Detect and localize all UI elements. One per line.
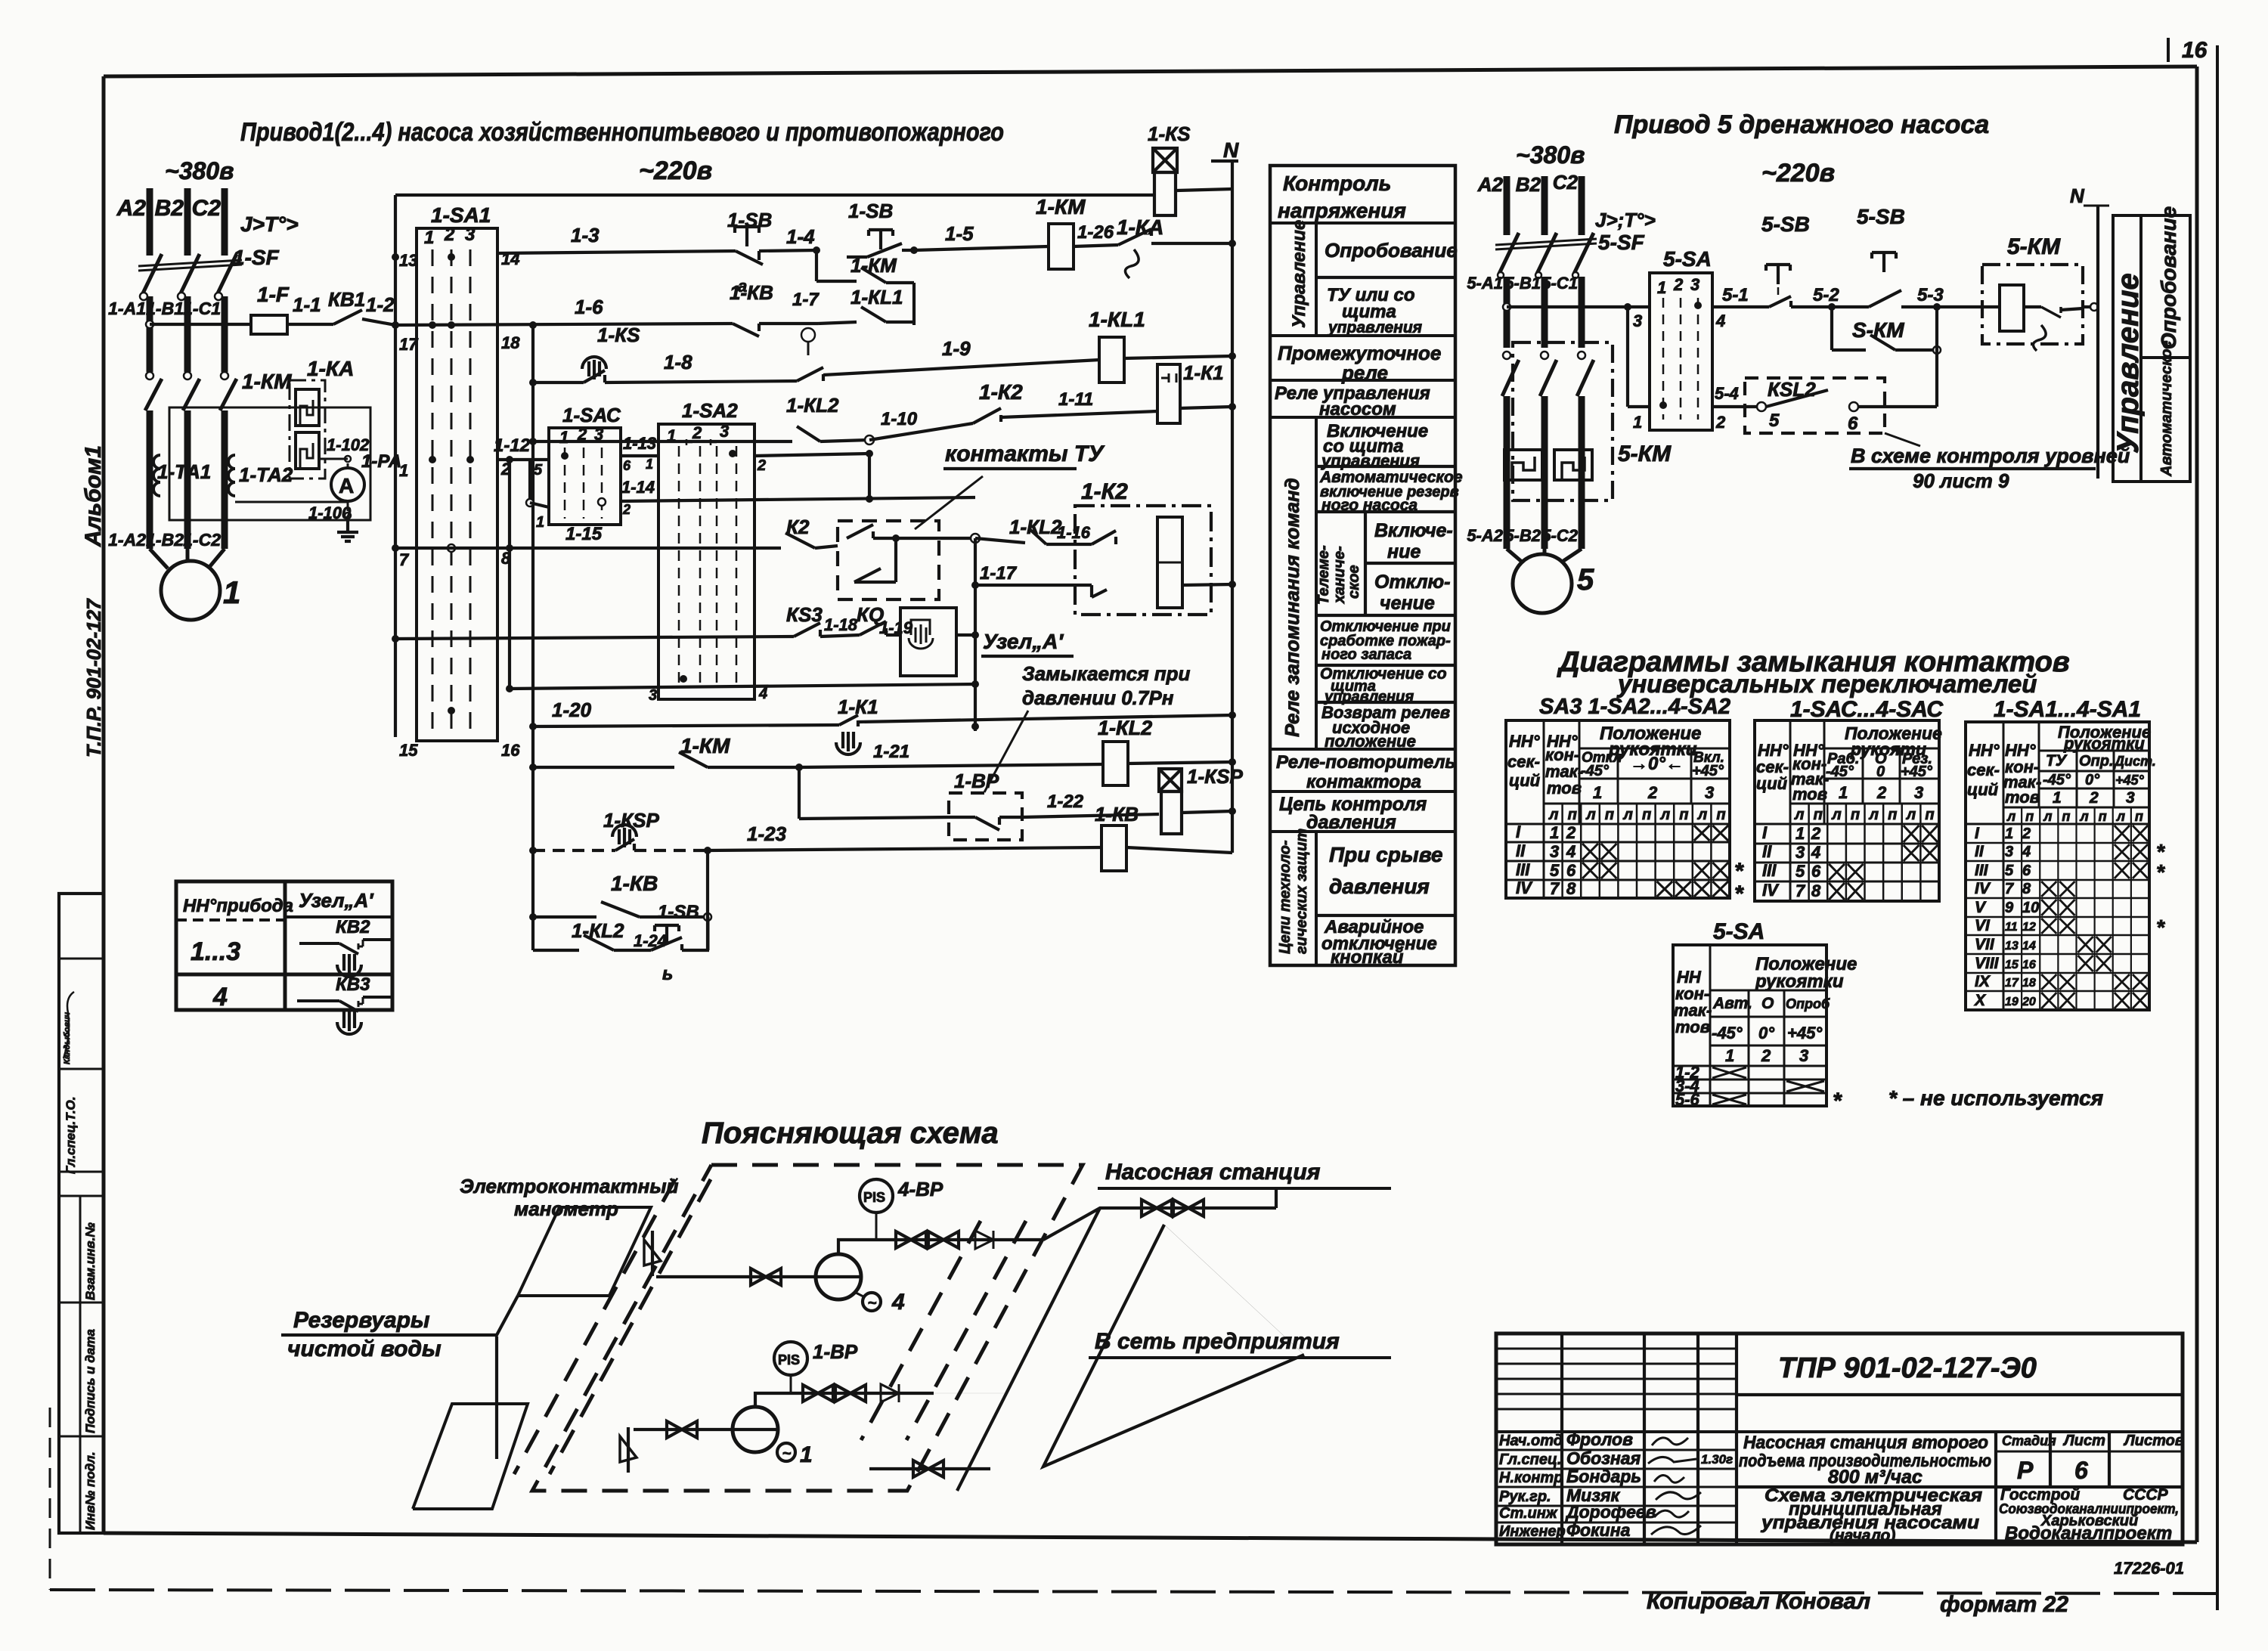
svg-text:2: 2 [444,225,455,245]
svg-text:В схеме контроля уровней: В схеме контроля уровней [1851,444,2130,467]
svg-text:Привод1(2...4) насоса хозяйст: Привод1(2...4) насоса хозяйственнопитьев… [240,118,1004,147]
wire 1-5 [914,246,1049,250]
svg-text:1-ВР: 1-ВР [813,1340,858,1363]
svg-text:НН°: НН° [1969,741,2000,760]
svg-text:1-ТА1: 1-ТА1 [157,460,211,483]
svg-text:3: 3 [1690,275,1699,294]
svg-text:4: 4 [1566,842,1576,861]
svg-text:л: л [1548,807,1559,823]
svg-text:1.30г: 1.30г [1701,1452,1733,1467]
svg-text:1-КL2: 1-КL2 [786,394,839,417]
svg-text:п: п [2025,809,2034,824]
wire 1-15 [395,547,781,550]
svg-text:IV: IV [1516,878,1533,897]
svg-text:Контроль: Контроль [1283,172,1391,195]
switch block 1-SAC [549,428,621,525]
svg-text:5-КМ: 5-КМ [2007,234,2061,259]
wire 1-6 [395,324,733,325]
svg-text:положение: положение [1325,732,1416,751]
X marks table 5-SA [1712,1067,1746,1078]
contactor coil 5-KM box [1982,265,2083,344]
svg-text:5-А2: 5-А2 [1467,526,1503,545]
svg-text:л: л [1660,807,1671,823]
box Управление / Опробование [2113,215,2190,482]
wire 1-100 and ground [235,501,348,503]
svg-text:ного запаса: ного запаса [1321,646,1411,663]
pump 1 discharge pipe [755,1393,934,1407]
svg-text:ское: ское [1346,565,1362,599]
network label pipe connection [934,1392,1005,1394]
svg-text:Водоканалпроект: Водоканалпроект [2005,1523,2172,1544]
svg-text:19: 19 [2005,996,2019,1008]
svg-text:1-КS: 1-КS [1148,122,1191,145]
svg-text:1-SАС...4-SАС: 1-SАС...4-SАС [1790,697,1944,722]
svg-text:л: л [1831,807,1842,823]
svg-text:1-А1: 1-А1 [108,299,146,318]
svg-text:1-18: 1-18 [824,615,858,634]
svg-text:J>;Т°>: J>;Т°> [1595,209,1656,231]
wire 1-3 [497,251,736,253]
svg-text:Т.П.Р. 901-02-127: Т.П.Р. 901-02-127 [82,598,105,757]
svg-text:п: п [1888,807,1897,823]
svg-text:1-КS: 1-КS [597,324,640,346]
svg-text:5: 5 [1795,862,1805,881]
svg-text:0: 0 [1876,764,1885,780]
svg-text:6: 6 [1848,414,1858,434]
svg-text:IV: IV [1762,881,1780,900]
svg-text:1-22: 1-22 [1047,791,1084,812]
svg-text:Бондарь: Бондарь [1566,1467,1641,1486]
svg-text:управления: управления [1328,319,1422,336]
svg-text:Стадия: Стадия [2002,1433,2056,1448]
svg-text:20: 20 [2022,996,2036,1008]
svg-text:1-КВ: 1-КВ [1095,803,1139,825]
svg-text:КВ1: КВ1 [328,288,365,311]
reservoir lower [413,1404,528,1509]
paper bottom edge line [50,1590,2217,1594]
svg-text:давления: давления [1306,812,1396,833]
svg-text:5-4: 5-4 [1715,384,1739,403]
svg-text:5-2: 5-2 [1813,285,1839,305]
reservoir upper [518,1207,651,1296]
suction manifold dashed lines [514,1179,675,1474]
svg-text:1-КМ: 1-КМ [242,370,292,393]
svg-text:1-К2: 1-К2 [979,380,1023,404]
svg-text:3: 3 [1550,842,1559,861]
paper left edge line [49,1408,51,1590]
svg-text:8: 8 [1566,879,1576,898]
svg-text:Инв№ подл.: Инв№ подл. [83,1451,98,1530]
svg-text:1-В2: 1-В2 [146,530,184,550]
svg-text:Инженер: Инженер [1499,1523,1566,1540]
svg-text:+45°: +45° [1787,1024,1822,1042]
svg-text:13: 13 [2005,940,2019,952]
svg-text:2: 2 [1761,1046,1771,1065]
leader В схеме контроля уровней [1885,433,1920,446]
svg-text:Реле запоминания команд: Реле запоминания команд [1281,478,1303,737]
function table frame [1270,166,1455,965]
coil 1-KL2 [1103,742,1128,785]
table 1-SAC...4-SAC [1755,720,1939,901]
svg-text:Автоматическое: Автоматическое [2158,340,2175,477]
svg-text:III: III [1516,860,1530,879]
svg-text:Ст.инж: Ст.инж [1499,1505,1558,1522]
svg-text:Лист: Лист [2062,1433,2105,1449]
coil 1-KM [1049,224,1074,269]
svg-text:ние: ние [1387,541,1421,562]
svg-text:В сеть предприятия: В сеть предприятия [1095,1329,1340,1354]
svg-text:Н.контр: Н.контр [1499,1470,1563,1486]
svg-text:1-3: 1-3 [571,224,600,246]
svg-text:I: I [1975,825,1980,842]
svg-text:1: 1 [646,457,653,472]
network pipe right [957,1208,1100,1491]
contactor 5-KM main poles box [1513,342,1613,500]
title block frame [1496,1333,2183,1544]
svg-text:N: N [2070,184,2085,207]
svg-text:-45°: -45° [2043,772,2071,788]
svg-text:*: * [1833,1089,1842,1114]
svg-text:Дист.: Дист. [2113,754,2156,769]
svg-text:90 лист 9: 90 лист 9 [1913,469,2009,492]
svg-text:I: I [1516,822,1521,841]
svg-text:1-С2: 1-С2 [183,530,221,550]
svg-text:чистой воды: чистой воды [287,1337,442,1361]
svg-text:1-10: 1-10 [881,409,918,429]
svg-text:п: п [1679,807,1688,823]
svg-text:п: п [1925,807,1934,823]
svg-text:17226-01: 17226-01 [2114,1559,2184,1578]
wire 5-4 [1712,405,1761,408]
wire 1-1 from phase to fuse [146,321,153,328]
svg-text:1-100: 1-100 [308,503,352,522]
svg-text:1-SА2: 1-SА2 [682,399,738,422]
phase bus C2 (drive1) [222,188,228,256]
svg-text:1: 1 [223,575,240,610]
svg-text:Реле-повторитель: Реле-повторитель [1276,752,1456,773]
discharge manifold dashed lines [861,1221,981,1440]
phase segments to motor 5 [1504,396,1510,549]
svg-text:1-SB: 1-SB [848,200,893,222]
svg-text:ь: ь [662,964,673,984]
svg-text:2: 2 [2022,825,2031,842]
contact 1-K1 with delay [801,328,815,342]
svg-text:5-КМ: 5-КМ [1618,441,1672,466]
svg-text:давлении 0.7Рн: давлении 0.7Рн [1022,686,1174,709]
svg-text:тов: тов [1675,1018,1710,1036]
svg-text:5-3: 5-3 [1917,285,1944,305]
svg-text:16: 16 [2182,38,2208,63]
svg-text:6: 6 [1566,861,1576,880]
svg-text:1-К1: 1-К1 [838,695,878,718]
svg-text:л: л [2080,809,2089,824]
svg-text:л: л [1697,807,1708,823]
svg-text:0°: 0° [2085,772,2100,788]
svg-text:3: 3 [465,225,476,245]
vertical x=936 [706,850,709,950]
svg-text:1-7: 1-7 [792,290,820,310]
phase lines through CTs [147,410,153,549]
svg-text:3: 3 [1914,783,1923,802]
svg-text:КS3: КS3 [786,603,823,626]
svg-text:II: II [1975,843,1984,860]
svg-text:л: л [1585,807,1596,823]
svg-text:3: 3 [1795,843,1805,862]
svg-text:Опробование: Опробование [1325,239,1458,262]
svg-text:Рук.гр.: Рук.гр. [1499,1488,1551,1505]
svg-text:Электроконтактный: Электроконтактный [460,1175,679,1197]
svg-text:насосом: насосом [1319,399,1396,420]
svg-text:1-КL2: 1-КL2 [572,919,624,942]
vertical link to SAC terminal 1 [528,460,531,503]
svg-text:1-5: 1-5 [945,222,974,245]
svg-text:1-23: 1-23 [747,822,787,845]
svg-text:1: 1 [800,1442,813,1467]
svg-text:2: 2 [2089,789,2099,807]
svg-text:чение: чение [1380,593,1435,614]
svg-text:тов: тов [2005,788,2040,807]
breaker 5-SF [1499,233,1519,274]
svg-text:5: 5 [534,462,543,479]
svg-text:тов: тов [1547,779,1582,798]
svg-text:2: 2 [1673,275,1684,294]
svg-text:КВ3: КВ3 [336,974,370,995]
motor 1 [161,561,220,620]
svg-text:п: п [1605,807,1614,823]
svg-text:VII: VII [1975,936,1995,953]
svg-text:15: 15 [399,741,418,760]
svg-text:3: 3 [2126,789,2135,807]
switch block 1-SA1 [417,228,497,741]
svg-text:1-21: 1-21 [873,742,909,762]
svg-text:НН°прибода: НН°прибода [183,896,293,916]
X marks table SAC [1904,825,1919,842]
phase bus A2 B2 C2 (drive5) [1504,176,1510,235]
svg-text:Дорофеев: Дорофеев [1565,1502,1656,1522]
svg-text:КSL2: КSL2 [1768,378,1816,401]
svg-text:1-КL1: 1-КL1 [850,286,903,308]
svg-text:1-1: 1-1 [293,293,321,316]
svg-text:Фокина: Фокина [1566,1520,1631,1540]
wire 5-1 [1712,305,1769,308]
svg-text:1-SA1: 1-SA1 [431,203,491,227]
pump station dashed boundary [532,1165,1083,1491]
svg-text:Р: Р [2017,1457,2034,1484]
wire 1-8 [605,381,797,383]
svg-text:-45°: -45° [1826,764,1854,780]
svg-text:4: 4 [758,686,767,702]
phase bus B2 (drive1) [184,188,191,256]
pump 4 suction pipe [677,1275,816,1278]
svg-text:л: л [1794,807,1805,823]
vertical junction x=1150 [868,454,871,499]
svg-text:SА3 1-SА2...4-SА2: SА3 1-SА2...4-SА2 [1539,695,1730,719]
parallel contact 1-KM aux [815,250,818,281]
svg-text:5-6: 5-6 [1675,1090,1700,1109]
svg-text:Телеме-: Телеме- [1315,545,1332,605]
svg-text:1-9: 1-9 [942,337,971,360]
svg-text:ций: ций [1967,780,1999,799]
svg-text:-45°: -45° [1581,763,1610,779]
svg-text:В2: В2 [1516,173,1541,196]
X marks table SA2 [1694,825,1710,841]
table 5-SA [1673,945,1826,1106]
svg-text:16: 16 [2022,959,2036,971]
wire 1-18 KS3 rung [395,637,794,639]
table 1-SA1...4-SA1 [1966,722,2149,1010]
phase segments to 5-KM [1504,277,1510,348]
svg-text:5-С2: 5-С2 [1541,526,1578,545]
svg-text:~: ~ [782,1445,792,1462]
svg-text:3: 3 [720,422,729,441]
svg-text:л: л [2043,809,2052,824]
left stamp column [59,894,104,1533]
svg-text:1-ВР: 1-ВР [954,770,999,792]
svg-text:*: * [1734,859,1744,884]
svg-text:формат 22: формат 22 [1940,1592,2068,1617]
svg-text:1-SВ: 1-SВ [658,902,699,922]
svg-text:Поясняющая схема: Поясняющая схема [702,1117,999,1150]
svg-text:17: 17 [399,335,419,354]
svg-text:кнопкай: кнопкай [1331,947,1404,968]
svg-text:сек-: сек- [1967,760,2000,779]
svg-text:II: II [1516,841,1526,860]
svg-text:1-SАС: 1-SАС [562,404,621,426]
svg-text:1: 1 [2005,825,2013,842]
svg-text:7: 7 [1550,879,1560,898]
svg-text:1-КМ: 1-КМ [1036,195,1086,218]
svg-text:5: 5 [1577,563,1594,596]
svg-text:~220в: ~220в [639,156,712,185]
wire 1-23 [708,847,1101,850]
svg-text:1-КМ: 1-КМ [680,734,730,757]
svg-text:*: * [1734,881,1744,906]
table SA3 1-SA2...4-SA2 [1506,720,1730,898]
table NN привода / Узел А [176,881,392,1010]
svg-text:Альбом1: Альбом1 [81,445,106,547]
svg-text:1-26: 1-26 [1077,222,1114,243]
svg-text:1-КL1: 1-КL1 [1089,308,1145,331]
svg-text:IV: IV [1975,880,1991,897]
svg-text:Опробование: Опробование [2157,206,2180,349]
wire 1-26 [1074,245,1118,246]
wire to 5-KM coil [1937,305,1982,308]
svg-text:Гл.спец.Т.О.: Гл.спец.Т.О. [64,1097,78,1175]
svg-text:л: л [1622,807,1633,823]
svg-text:А2: А2 [116,196,147,221]
svg-text:1: 1 [1795,824,1805,843]
svg-text:В2: В2 [155,196,184,221]
svg-text:4: 4 [1811,843,1820,862]
svg-text:1-15: 1-15 [565,524,603,544]
svg-text:J>T°>: J>T°> [240,212,299,236]
svg-text:VI: VI [1975,917,1991,934]
svg-text:п: п [2135,809,2143,824]
wire 1-1 label [287,323,333,326]
svg-text:1: 1 [399,461,408,480]
svg-text:5: 5 [1769,410,1780,431]
dashed box KSL2 [1745,378,1885,433]
svg-text:1...3: 1...3 [191,937,240,966]
relay KQ box [900,608,956,676]
svg-text:+45°: +45° [1901,764,1933,780]
svg-text:Замыкается при: Замыкается при [1022,662,1191,685]
svg-text:3: 3 [1633,311,1642,330]
svg-text:~380в: ~380в [165,157,234,184]
svg-text:0°: 0° [1758,1024,1774,1042]
svg-text:Управление: Управление [1289,220,1309,328]
svg-text:1-ТА2: 1-ТА2 [239,463,293,486]
svg-text:Подпись и дата: Подпись и дата [83,1329,98,1433]
wire 1-20 [533,725,839,726]
svg-text:4-ВР: 4-ВР [897,1178,943,1200]
svg-text:1-SА1...4-SА1: 1-SА1...4-SА1 [1994,697,2141,722]
svg-text:III: III [1975,862,1989,879]
left bus of 1-SA1 [394,195,397,737]
svg-text:1-20: 1-20 [552,698,592,721]
svg-text:14: 14 [2022,940,2036,952]
svg-text:V: V [1975,899,1987,916]
coil 1-KB [1101,825,1126,871]
svg-text:1-КВ: 1-КВ [611,872,658,895]
header pipe right upper [1043,1208,1276,1240]
svg-text:5-В2: 5-В2 [1504,526,1541,545]
phase line segments 1-A1 1-B1 1-C1 [147,296,153,372]
svg-text:Нач.отд: Нач.отд [1499,1433,1563,1449]
svg-text:1-А2: 1-А2 [108,530,146,550]
svg-text:Резервуары: Резервуары [293,1308,430,1333]
pressure contact 1-BP box [949,793,1022,840]
svg-text:1-К1: 1-К1 [1183,361,1224,384]
svg-text:А2: А2 [1477,173,1504,196]
drawing frame border [104,67,2197,76]
pump 1 [733,1407,778,1452]
svg-text:При срыве: При срыве [1329,843,1443,866]
pump 1 suction pipe [634,1428,733,1431]
switch block 5-SA [1650,273,1712,430]
svg-text:С2: С2 [192,196,222,221]
svg-text:2: 2 [622,502,631,517]
svg-text:X: X [1974,992,1987,1009]
relay 1-K1 box on N bus [1157,364,1180,423]
svg-text:+45°: +45° [1692,763,1724,779]
svg-text:1-КМ: 1-КМ [850,254,897,277]
svg-text:5: 5 [1550,861,1560,880]
svg-text:1: 1 [1839,783,1848,802]
pump 4 [816,1254,861,1299]
stamp signature squiggle [64,992,74,1058]
wire 1-13 [621,454,658,457]
wire 1-9 [823,360,1099,375]
svg-text:контактора: контактора [1306,772,1421,792]
svg-text:ного насоса: ного насоса [1321,497,1417,514]
svg-text:2: 2 [757,457,766,474]
svg-text:1-17: 1-17 [980,563,1018,584]
svg-text:тов: тов [1792,785,1827,804]
svg-text:1: 1 [1633,413,1642,432]
svg-text:4: 4 [891,1290,905,1315]
svg-text:5-А1: 5-А1 [1467,274,1503,293]
svg-text:4: 4 [212,983,228,1011]
svg-text:2: 2 [1876,783,1887,802]
switch block 1-SA2 [658,424,754,699]
svg-text:1-С1: 1-С1 [183,299,221,318]
coil 1-KL1 [1099,337,1124,383]
svg-text:п: п [1851,807,1860,823]
gauge PIS 1-BP [774,1342,807,1375]
svg-text:Насосная станция: Насосная станция [1105,1160,1321,1185]
svg-text:1-КВ: 1-КВ [730,281,773,304]
